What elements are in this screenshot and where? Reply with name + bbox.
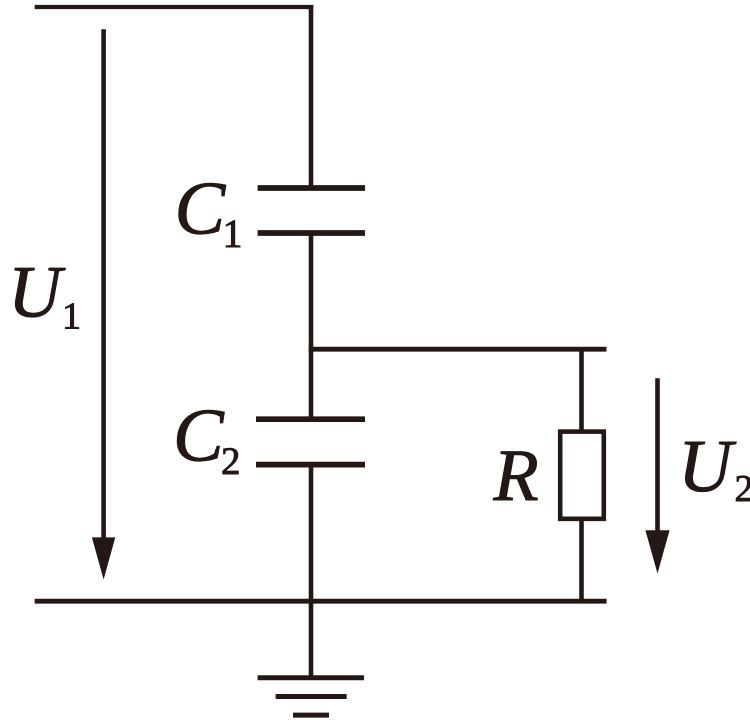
arrow U1 [92, 29, 115, 579]
capacitor C2 [256, 419, 365, 464]
ground [258, 678, 364, 715]
wire vertical from C1 to C2 through node [309, 233, 314, 419]
arrow U2 [645, 378, 669, 573]
label U1 [15, 268, 79, 328]
capacitor C1 [258, 188, 365, 233]
resistor R [560, 432, 604, 519]
wire top horizontal [35, 5, 314, 9]
label U2 [685, 442, 750, 501]
label C2 [177, 410, 238, 474]
wire ground stem [309, 601, 314, 678]
wire bottom horizontal [35, 599, 607, 604]
label R [493, 452, 537, 500]
wire vertical from C2 to bottom wire [309, 465, 314, 601]
wire vertical from top corner to C1 [309, 5, 314, 188]
wire node horizontal [309, 347, 607, 352]
wire from resistor to bottom wire [579, 519, 584, 601]
label C1 [179, 183, 240, 247]
wire right branch from node to resistor [579, 349, 584, 431]
